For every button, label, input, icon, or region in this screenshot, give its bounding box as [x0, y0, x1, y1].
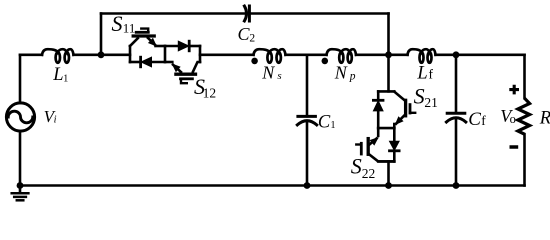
- svg-text:S: S: [414, 83, 425, 108]
- diode (antiparallel of S21): [373, 99, 383, 102]
- svg-text:S: S: [112, 11, 123, 36]
- wire left branch down to source: [19, 55, 22, 103]
- wire L1 to switch block: [74, 53, 131, 56]
- svg-text:C: C: [468, 109, 481, 130]
- diode (antiparallel of S11): [139, 57, 142, 67]
- wire switch block to Ns: [200, 53, 254, 56]
- node dot Ns polarity: [251, 58, 258, 65]
- svg-text:N: N: [261, 62, 275, 82]
- diode (antiparallel of S12): [188, 41, 191, 51]
- capacitor C2: [244, 6, 246, 21]
- node S22 bottom junction: [385, 182, 392, 189]
- svg-text:f: f: [481, 113, 486, 128]
- svg-text:f: f: [429, 67, 434, 82]
- minus sign: [510, 145, 519, 149]
- wire riser right (C2 to main): [387, 14, 390, 55]
- svg-text:L: L: [52, 65, 63, 85]
- node C1 bottom junction: [304, 182, 311, 189]
- S21/S22 block bottom cell: [393, 128, 396, 141]
- wire S22 to bottom rail: [387, 161, 390, 185]
- switch block right cell outline: [199, 46, 202, 62]
- transistor S12: [193, 62, 200, 72]
- svg-text:p: p: [349, 70, 356, 82]
- AC source sine: [8, 111, 33, 123]
- inductor Lf: [408, 49, 436, 55]
- wire riser left (C2 to main): [100, 14, 103, 55]
- ground: [19, 186, 22, 194]
- wire right branch down: [523, 55, 526, 98]
- transistor S11: [130, 38, 138, 46]
- svg-text:C: C: [318, 112, 331, 132]
- wire main left: [20, 53, 42, 56]
- transformer winding Ns: [254, 49, 286, 55]
- transistor S22: [377, 128, 380, 136]
- svg-text:1: 1: [63, 73, 68, 84]
- wire top C2 line left segment: [101, 12, 244, 15]
- svg-text:2: 2: [249, 33, 255, 45]
- switch block S11/S12 left cell outline: [129, 46, 132, 62]
- wire source to bottom rail: [19, 131, 22, 185]
- capacitor C1: [298, 115, 316, 118]
- node junction L1/C2: [98, 51, 105, 58]
- resistor R: [518, 98, 530, 134]
- node junction Lf/Cf: [453, 51, 460, 58]
- wire Cf riser: [455, 55, 458, 113]
- plus sign: [509, 85, 519, 95]
- transistor S21: [394, 92, 405, 101]
- svg-text:R: R: [539, 108, 550, 128]
- node dot Np polarity: [322, 58, 329, 65]
- wire top C2 line right segment: [251, 12, 389, 15]
- inductor L1: [42, 49, 74, 55]
- svg-text:i: i: [54, 115, 57, 126]
- wire Ns to Np: [286, 53, 327, 56]
- wire Np to junction: [356, 53, 408, 56]
- S21/S22 block top cell outline: [378, 90, 394, 93]
- wire C1 riser: [306, 55, 309, 117]
- svg-text:21: 21: [424, 95, 438, 110]
- node Cf bottom junction: [453, 182, 460, 189]
- svg-text:12: 12: [203, 85, 217, 100]
- svg-text:N: N: [334, 62, 348, 82]
- node ground junction: [17, 182, 24, 189]
- svg-text:22: 22: [362, 166, 376, 181]
- wire riser to S21 block: [387, 55, 390, 92]
- svg-text:1: 1: [330, 120, 335, 131]
- capacitor Cf: [447, 112, 465, 115]
- svg-text:s: s: [277, 70, 281, 82]
- wire resistor to bottom rail: [523, 134, 526, 185]
- transformer winding Np: [327, 49, 357, 55]
- svg-text:o: o: [510, 112, 516, 126]
- svg-text:L: L: [416, 64, 427, 84]
- diode (antiparallel of S22): [390, 149, 400, 152]
- svg-text:11: 11: [123, 20, 136, 35]
- svg-text:S: S: [351, 154, 362, 179]
- node junction Np/S21/Lf: [385, 51, 392, 58]
- wire main to top right corner: [436, 53, 525, 56]
- AC source Vi circle: [6, 103, 34, 131]
- bottom rail: [20, 184, 525, 187]
